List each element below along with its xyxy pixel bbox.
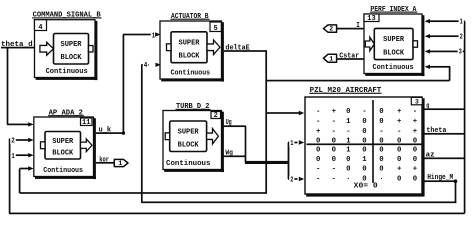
- svg-text:-: -: [316, 166, 320, 174]
- svg-text:·: ·: [346, 175, 350, 183]
- svg-text:+: +: [413, 166, 418, 174]
- block PERF_INDEX_A (superblock U5): [364, 14, 422, 74]
- wire u_k from AP_ADA_2: [96, 132, 124, 134]
- svg-text:+: +: [413, 128, 418, 136]
- svg-text:1: 1: [460, 18, 464, 26]
- wire Cstar into PERF_INDEX_A: [337, 58, 365, 60]
- svg-text:0: 0: [316, 137, 320, 145]
- svg-text:-: -: [362, 108, 366, 116]
- svg-text:Continuous: Continuous: [43, 167, 83, 175]
- connector input 2 (I) bubble: [323, 25, 336, 32]
- svg-text:+: +: [397, 118, 402, 126]
- svg-text:0: 0: [397, 146, 401, 154]
- svg-text:0: 0: [362, 128, 366, 136]
- svg-text:Continuous: Continuous: [166, 160, 210, 168]
- svg-text:0: 0: [379, 156, 383, 164]
- wire deltaE feedback bottom horizontal: [20, 192, 267, 194]
- svg-text:-: -: [346, 128, 350, 136]
- svg-text:Continuous: Continuous: [171, 69, 211, 77]
- svg-text:0: 0: [316, 156, 320, 164]
- svg-text:SUPER: SUPER: [52, 138, 74, 146]
- wire deltaE into PZL aircraft: [266, 112, 299, 114]
- svg-text:0: 0: [346, 166, 350, 174]
- svg-text:2: 2: [214, 112, 218, 120]
- svg-text:2: 2: [460, 33, 463, 41]
- svg-text:·: ·: [379, 175, 383, 183]
- wire right bus vertical: [464, 21, 466, 213]
- svg-text:13: 13: [367, 15, 375, 23]
- wire corner vertical x20: [19, 169, 21, 194]
- divider horizontal of matrix [A;C]: [307, 143, 422, 145]
- svg-text:+: +: [413, 118, 418, 126]
- wire Hinge_M from PZL aircraft: [424, 180, 456, 182]
- svg-text:0: 0: [379, 146, 383, 154]
- wire deltaE from ACTUATOR_B: [224, 50, 267, 52]
- wire u_k into ACTUATOR_B input 1: [123, 34, 151, 36]
- svg-text:3: 3: [459, 49, 462, 57]
- wire Ug+Wg merged thick: [245, 161, 289, 164]
- svg-text:2: 2: [11, 138, 15, 146]
- wire into AP_ADA_2 input 2: [9, 139, 29, 141]
- svg-text:X0= 0: X0= 0: [354, 182, 378, 190]
- wire Ug vertical down: [245, 126, 247, 162]
- wire bracket vertical at PZL inputs: [288, 143, 290, 180]
- svg-text:0: 0: [413, 175, 417, 183]
- svg-text:-: -: [332, 166, 336, 174]
- wire Ug from TURB_D_2: [223, 125, 246, 127]
- wire u_k vertical up: [123, 35, 125, 134]
- svg-text:BLOCK: BLOCK: [179, 52, 201, 60]
- svg-text:SUPER: SUPER: [383, 36, 405, 44]
- svg-text:-: -: [332, 118, 336, 126]
- svg-text:0: 0: [362, 118, 366, 126]
- svg-text:+: +: [397, 166, 402, 174]
- svg-text:SUPER: SUPER: [61, 41, 83, 49]
- svg-text:Continuous: Continuous: [46, 68, 88, 76]
- svg-text:PZL_M20_AIRCRAFT: PZL_M20_AIRCRAFT: [310, 87, 382, 95]
- wire into PZL aircraft input 2: [288, 178, 298, 180]
- svg-text:SUPER: SUPER: [179, 40, 201, 48]
- wire into PERF_INDEX_A input 3: [430, 51, 465, 53]
- wire deltaE branch to PERF_INDEX horizontal: [266, 80, 450, 82]
- wire into ACTUATOR_B input 4: [141, 64, 149, 66]
- svg-text:1: 1: [346, 118, 351, 126]
- wire into PZL aircraft input 1: [288, 142, 298, 144]
- svg-text:4: 4: [38, 24, 42, 32]
- svg-text:0: 0: [362, 137, 366, 145]
- wire theta_d into AP_ADA_2 input 1: [7, 124, 29, 126]
- wire deltaE vertical: [265, 51, 267, 193]
- svg-text:Cstar: Cstar: [339, 52, 359, 60]
- connector output 1 (kor) bubble: [96, 162, 115, 164]
- node theta_d / wire to COMMAND_SIGNAL_B input: [1, 47, 35, 49]
- svg-text:Hinge_M: Hinge_M: [427, 174, 453, 182]
- block ACTUATOR_B (superblock U2): [160, 21, 222, 79]
- svg-text:theta: theta: [426, 127, 447, 135]
- svg-text:-: -: [316, 108, 320, 116]
- svg-text:+: +: [332, 108, 337, 116]
- svg-text:0: 0: [413, 156, 417, 164]
- wire az from PZL aircraft: [424, 157, 465, 159]
- svg-text:Ug: Ug: [226, 119, 232, 127]
- svg-text:0: 0: [316, 146, 320, 154]
- svg-text:1: 1: [11, 153, 15, 161]
- svg-text:0: 0: [379, 108, 383, 116]
- svg-text:az: az: [426, 152, 435, 160]
- wire feedback vertical left (from bottom bus): [9, 139, 11, 214]
- svg-text:0: 0: [397, 175, 401, 183]
- svg-text:-: -: [332, 175, 336, 183]
- divider vertical of matrix [A|B]: [372, 100, 374, 183]
- block TURB_D_2 (superblock U4): [163, 111, 222, 170]
- connector input 1 (Cstar) bubble: [323, 54, 336, 62]
- svg-text:deltaE: deltaE: [225, 44, 250, 52]
- wire deltaE-feedback into AP_ADA_2 input 4: [20, 168, 29, 170]
- svg-text:1: 1: [346, 146, 351, 154]
- svg-text:0: 0: [379, 166, 383, 174]
- svg-text:BLOCK: BLOCK: [52, 150, 74, 158]
- svg-text:-: -: [316, 118, 320, 126]
- block COMMAND_SIGNAL_B (superblock U1): [35, 20, 96, 78]
- svg-text:1: 1: [362, 156, 367, 164]
- svg-text:+: +: [316, 128, 321, 136]
- wire q from PZL aircraft: [424, 108, 465, 110]
- wire Hinge_M bottom horizontal: [141, 201, 456, 203]
- svg-text:u_k: u_k: [99, 126, 112, 134]
- svg-text:2: 2: [290, 176, 293, 184]
- wire I into PERF_INDEX_A: [337, 28, 365, 30]
- wire into AP_ADA_2 input 3: [9, 154, 29, 156]
- wire theta from PZL aircraft: [424, 133, 465, 135]
- svg-text:+: +: [397, 108, 402, 116]
- svg-text:-: -: [332, 128, 336, 136]
- svg-text:0: 0: [413, 146, 417, 154]
- svg-text:BLOCK: BLOCK: [61, 54, 83, 62]
- svg-text:BLOCK: BLOCK: [178, 141, 200, 149]
- svg-text:-: -: [397, 128, 401, 136]
- svg-text:BLOCK: BLOCK: [383, 49, 405, 57]
- svg-text:1: 1: [152, 32, 156, 40]
- svg-text:1: 1: [329, 56, 333, 63]
- svg-text:0: 0: [332, 146, 336, 154]
- svg-text:kor: kor: [99, 156, 109, 164]
- svg-text:1: 1: [290, 140, 294, 148]
- wire into PERF_INDEX_A input 4: [430, 66, 450, 68]
- svg-text:q: q: [426, 102, 429, 110]
- wire deltaE branch vertical up to PERF input 4: [449, 67, 451, 81]
- svg-text:0: 0: [413, 137, 417, 145]
- svg-text:Continuous: Continuous: [373, 64, 414, 72]
- svg-text:3: 3: [415, 99, 419, 106]
- svg-text:11: 11: [82, 119, 90, 127]
- svg-text:4: 4: [144, 62, 148, 70]
- svg-text:0: 0: [332, 137, 336, 145]
- svg-text:0: 0: [346, 156, 350, 164]
- svg-text:1: 1: [118, 160, 122, 167]
- svg-text:0: 0: [397, 156, 401, 164]
- wire theta_d vertical down left side: [7, 48, 9, 125]
- block AP_ADA_2 (superblock U3): [34, 117, 94, 177]
- wire into PERF_INDEX_A input 2: [430, 35, 465, 37]
- svg-text:2: 2: [329, 26, 333, 33]
- wire into PERF_INDEX_A input 1: [430, 20, 465, 22]
- svg-text:0: 0: [332, 156, 336, 164]
- svg-text:SUPER: SUPER: [178, 129, 200, 137]
- svg-text:-: -: [379, 128, 383, 136]
- svg-text:0: 0: [379, 137, 383, 145]
- svg-text:0: 0: [346, 108, 350, 116]
- wire Hinge_M feedback vertical mid: [141, 65, 143, 203]
- svg-text:0: 0: [362, 166, 366, 174]
- svg-text:0: 0: [397, 137, 401, 145]
- svg-text:0: 0: [362, 146, 366, 154]
- svg-text:theta_d: theta_d: [1, 41, 33, 49]
- svg-text:1: 1: [346, 137, 351, 145]
- svg-text:Wg: Wg: [225, 149, 233, 157]
- wire bottom bus horizontal: [9, 213, 465, 215]
- svg-text:5: 5: [214, 25, 218, 33]
- svg-text:0: 0: [379, 118, 383, 126]
- block PZL_M20_AIRCRAFT (state-space matrix block U6): [305, 97, 422, 194]
- svg-text:-: -: [413, 108, 417, 116]
- wire Wg from TURB_D_2: [223, 155, 246, 157]
- svg-text:I: I: [356, 22, 360, 30]
- wire Hinge_M vertical right: [455, 181, 457, 203]
- svg-text:-: -: [316, 175, 320, 183]
